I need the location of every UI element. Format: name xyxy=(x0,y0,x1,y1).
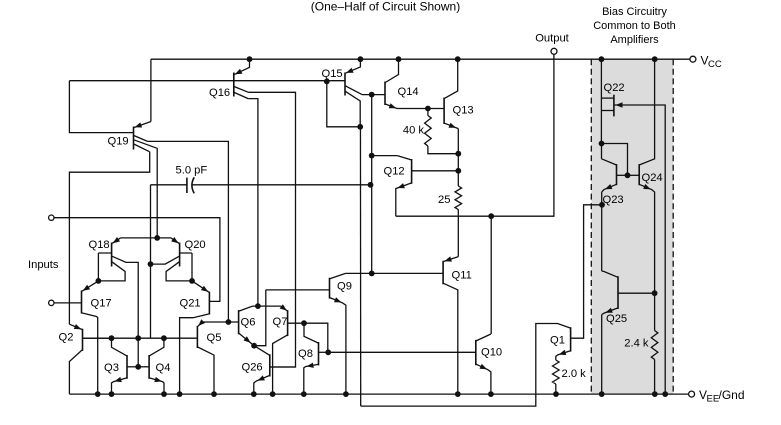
svg-text:Q16: Q16 xyxy=(209,87,230,99)
wire: Q15 collector1 to Q14 base xyxy=(362,94,385,96)
wire: Q14 emitter to Q13 base xyxy=(397,108,444,110)
node: Q25 base dot xyxy=(652,290,658,296)
transistor Q16 xyxy=(234,59,250,98)
VCC rail xyxy=(151,58,690,60)
resistor 2.4 k xyxy=(654,293,656,330)
node: Q4 collector dot xyxy=(161,335,167,341)
svg-text:Q22: Q22 xyxy=(604,82,625,94)
node: Q15 collector1 / VAS column dot xyxy=(369,92,375,98)
svg-text:Q6: Q6 xyxy=(241,317,256,329)
transistor Q9 xyxy=(330,273,346,394)
transistor Q19 xyxy=(134,122,157,152)
wire: VCC rail corner down to Q19 emitter xyxy=(150,59,152,121)
wire: bias left column lower xyxy=(601,192,603,205)
wire: VAS column (x=371.7) xyxy=(371,95,373,274)
wire: Q16 collector2 to Q7 emitter node xyxy=(248,99,258,307)
svg-text:2.4 k: 2.4 k xyxy=(624,338,649,350)
svg-text:2.0 k: 2.0 k xyxy=(562,368,587,380)
wire: input pair emitter link xyxy=(121,237,172,239)
resistor 25 xyxy=(455,186,462,210)
svg-text:Q11: Q11 xyxy=(452,270,472,282)
wire: bias left column to Q25 xyxy=(601,205,603,271)
transistor Q2 xyxy=(69,324,111,394)
svg-text:(One–Half of Circuit Shown): (One–Half of Circuit Shown) xyxy=(311,0,460,14)
transistor Q13 xyxy=(444,59,458,128)
svg-text:Q4: Q4 xyxy=(156,362,171,374)
transistor Q26 xyxy=(254,346,296,394)
wire: Q25 emitter drop xyxy=(601,315,603,395)
svg-text:Q19: Q19 xyxy=(108,136,129,148)
Output terminal xyxy=(551,48,557,54)
transistor Q12 xyxy=(396,156,459,217)
node: Q12 collector dot xyxy=(369,153,375,159)
transistor Q14 xyxy=(385,59,399,108)
transistor Q10 xyxy=(476,334,491,394)
svg-text:Amplifiers: Amplifiers xyxy=(610,34,659,46)
wire: Q19 collector2 tail line xyxy=(156,148,158,238)
wire: Q9 collector / Q11 base line xyxy=(346,272,444,274)
svg-text:Q2: Q2 xyxy=(59,332,74,344)
input terminal 1 xyxy=(49,215,54,220)
node: output wire dot xyxy=(488,213,494,219)
svg-text:Q24: Q24 xyxy=(642,172,663,184)
wire: Q19 collector3 to input line xyxy=(69,152,149,324)
transistor Q15 xyxy=(345,59,362,127)
wire: bias left column upper xyxy=(600,59,602,143)
svg-text:5.0 pF: 5.0 pF xyxy=(176,164,208,176)
wire: Q12 collector tap xyxy=(372,155,398,157)
wire: base bus left drop to Q19 base xyxy=(69,81,133,133)
wire: Q9 base link xyxy=(254,290,329,346)
svg-text:/Gnd: /Gnd xyxy=(719,388,745,402)
transistor Q21 xyxy=(180,281,210,394)
wire: Q16 collector1 to Q26 base xyxy=(248,92,295,367)
VEE rail junction dots xyxy=(95,391,101,397)
wire: long collector2 drop (x=360.7) xyxy=(359,127,361,406)
capacitor 5.0 pF xyxy=(151,177,371,193)
transistor Q4 xyxy=(138,338,164,394)
node: Q23/Q24 base dot xyxy=(625,172,631,178)
svg-text:Q1: Q1 xyxy=(550,335,565,347)
VEE rail xyxy=(69,393,688,395)
node: Q9 collector dot xyxy=(369,271,375,277)
svg-text:Q21: Q21 xyxy=(180,298,201,310)
svg-text:Q20: Q20 xyxy=(185,239,206,251)
svg-text:Q10: Q10 xyxy=(481,347,502,359)
bias region right dashed border xyxy=(672,59,674,394)
bias circuitry shaded region xyxy=(591,59,673,394)
transistor Q18 xyxy=(98,237,138,338)
node: Q3/Q4 base dot xyxy=(135,364,141,370)
svg-text:Q18: Q18 xyxy=(89,239,110,251)
node: Q23/Q24 base tap dot xyxy=(599,141,605,147)
transistor Q20 xyxy=(151,237,193,281)
wire: Q7 emitter stub xyxy=(258,305,281,307)
VCC terminal xyxy=(690,56,696,62)
svg-text:Common to Both: Common to Both xyxy=(593,20,676,32)
svg-text:40 k: 40 k xyxy=(403,125,425,137)
node: Q8 base / Q10 base dot xyxy=(325,349,331,355)
transistor Q24 xyxy=(628,59,655,293)
node: Q1 base pick-off dot xyxy=(599,202,605,208)
svg-text:Q15: Q15 xyxy=(322,68,343,80)
transistor Q25 xyxy=(602,271,655,315)
transistor Q17 xyxy=(82,281,99,394)
svg-text:Q7: Q7 xyxy=(273,316,288,328)
wire: Q19 collector1 to Q5/Q6 node xyxy=(148,141,229,322)
node: Q18 base/collector2 dot xyxy=(96,278,102,284)
transistor Q5 xyxy=(197,319,214,394)
node: 40k tap dot xyxy=(425,106,431,112)
node: Q15 base loop dot xyxy=(324,79,330,85)
transistor Q23 xyxy=(602,159,628,192)
wire: output node (y=216.2) xyxy=(396,54,554,216)
wire: Q23/Q24 base link xyxy=(602,144,628,176)
node: capacitor right dot xyxy=(368,182,374,188)
resistor 40 k xyxy=(427,109,429,116)
svg-text:Q12: Q12 xyxy=(384,166,405,178)
svg-text:Q3: Q3 xyxy=(104,362,119,374)
wire: mirror diode tap drop xyxy=(137,338,139,367)
node: Q20 collector1 dot xyxy=(148,261,154,267)
wire: base bus Q19/Q16/Q15 (y=81) xyxy=(69,80,345,82)
wire: capacitor left drop (x=150.5) xyxy=(150,185,152,338)
svg-text:Q5: Q5 xyxy=(207,332,222,344)
transistor Q8 xyxy=(304,323,328,394)
VEE/Gnd terminal xyxy=(689,391,695,397)
svg-text:CC: CC xyxy=(708,59,722,70)
transistor Q11 xyxy=(443,256,458,394)
node: Q5 emitter dot xyxy=(226,319,232,325)
wire: input 2 to Q17 base xyxy=(54,302,82,304)
wire: bias left column mid xyxy=(601,144,603,159)
node: Q20 base/collector2 dot xyxy=(189,278,195,284)
node: Q8 collector tap dot xyxy=(301,320,307,326)
svg-text:Output: Output xyxy=(535,33,569,45)
svg-text:Q13: Q13 xyxy=(453,105,474,117)
node: mirror diode tap dot xyxy=(135,335,141,341)
svg-text:Q23: Q23 xyxy=(603,194,624,206)
node: Q15 collector2 junction xyxy=(357,124,363,130)
svg-text:Q25: Q25 xyxy=(606,313,627,325)
node: Q3 collector dot xyxy=(109,335,115,341)
transistor Q3 xyxy=(112,338,139,394)
svg-text:Q14: Q14 xyxy=(398,86,419,98)
transistor Q7 xyxy=(273,304,328,394)
svg-text:Inputs: Inputs xyxy=(28,259,59,271)
svg-text:Q17: Q17 xyxy=(91,298,112,310)
node: Q7 emitter node dot xyxy=(255,303,261,309)
svg-text:EE: EE xyxy=(707,393,720,404)
node: tail current dot xyxy=(154,235,160,241)
wire: Q5 emitter / Q6 base link xyxy=(202,321,238,323)
bias region left dashed border xyxy=(590,59,592,394)
svg-text:Bias Circuitry: Bias Circuitry xyxy=(602,6,667,18)
svg-text:Q9: Q9 xyxy=(337,281,352,293)
wire: Q15 base loop xyxy=(327,81,360,126)
node: Q6 emitter / Q26 collector dot xyxy=(251,343,257,349)
transistor Q22 xyxy=(602,95,666,394)
transistor Q1 xyxy=(361,205,602,406)
svg-text:25: 25 xyxy=(438,194,450,206)
svg-text:Q26: Q26 xyxy=(242,362,263,374)
node: Q12 base dot xyxy=(455,168,461,174)
node: 40k bottom dot xyxy=(455,151,461,157)
resistor 2.0 k xyxy=(553,360,560,384)
wire: Q10 collector drop xyxy=(490,216,492,334)
wire: Q10 base line xyxy=(328,351,476,353)
svg-text:Q8: Q8 xyxy=(298,348,313,360)
wire: input 1 to Q21 base xyxy=(54,218,220,302)
wire: Q13 emitter column to 25 ohm xyxy=(457,129,459,186)
input terminal 2 xyxy=(49,300,54,305)
wire: mirror top line (y=338.2) xyxy=(83,337,198,339)
transistor Q6 xyxy=(239,306,258,346)
VCC rail junction dots xyxy=(247,56,253,62)
